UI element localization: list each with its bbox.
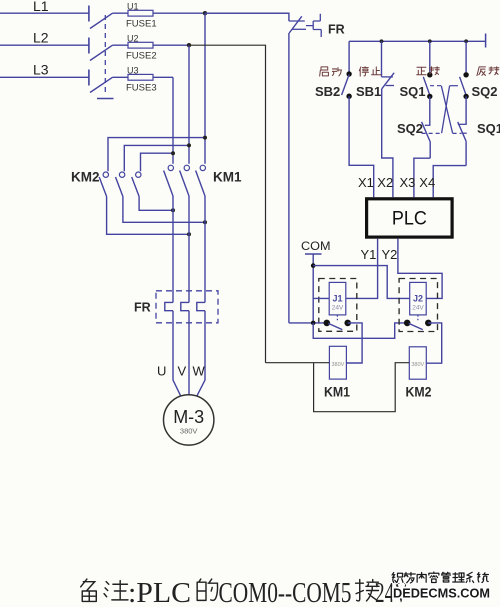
heater element 1 <box>165 302 173 310</box>
control bus <box>349 34 486 48</box>
wire phase A drop (from L1) <box>204 13 206 164</box>
fuse U1 <box>126 2 157 30</box>
terminal COM <box>301 239 331 323</box>
label KM2 coil <box>406 384 432 400</box>
svg-text:U: U <box>157 364 166 379</box>
svg-text:Y2: Y2 <box>382 247 398 262</box>
label Y2 <box>382 247 398 262</box>
wire SQ column4 to X4 <box>433 166 466 198</box>
limit switch SQ2 NC (forward column) <box>422 122 431 158</box>
svg-text:X2: X2 <box>377 175 393 190</box>
svg-text:L1: L1 <box>33 0 49 14</box>
label SQ2 <box>472 84 498 99</box>
svg-text:380V: 380V <box>411 362 424 368</box>
label SB1 <box>356 84 381 99</box>
node L1 junction dot <box>203 11 207 15</box>
contactor KM2 main contact 2 <box>116 172 125 197</box>
svg-text:DEDECMS.COM: DEDECMS.COM <box>393 587 490 601</box>
contactor KM1 main contact 3 <box>196 165 206 196</box>
label 反转 <box>477 67 499 76</box>
svg-text:X1: X1 <box>358 175 374 190</box>
contactor KM2 main contact 3 <box>132 172 141 197</box>
node bus dot SQ1 <box>428 39 432 43</box>
limit switch SQ1 NC (reverse column) <box>458 122 467 166</box>
svg-text:X3: X3 <box>400 175 416 190</box>
PLC box U1 <box>367 199 453 237</box>
svg-text:24V: 24V <box>412 305 424 312</box>
svg-text:24V: 24V <box>332 305 344 312</box>
motor M-3 circle <box>164 395 214 445</box>
limit switch SQ1 forward NO <box>423 41 432 125</box>
wire L1 to fuse <box>113 12 289 14</box>
svg-text:SB1: SB1 <box>356 84 381 99</box>
svg-text:PLC: PLC <box>392 208 427 230</box>
wire black bus to KM1 coil left <box>266 362 330 364</box>
svg-text:KM1: KM1 <box>324 384 350 400</box>
relay J2 dashed box <box>399 279 437 332</box>
contactor KM2 main contact 1 <box>99 172 108 197</box>
svg-text:L2: L2 <box>33 30 49 46</box>
svg-text:FUSE3: FUSE3 <box>126 83 157 94</box>
label 启动 <box>320 67 342 76</box>
svg-text:J1: J1 <box>332 294 342 304</box>
svg-text:KM2: KM2 <box>406 384 432 400</box>
contactor coil KM1 <box>329 346 346 379</box>
wire J1 coil left <box>313 297 329 299</box>
switch QS pole 3 <box>89 70 113 93</box>
wire L3 incoming <box>0 76 89 78</box>
svg-text:M-3: M-3 <box>173 407 204 427</box>
label X3 <box>400 175 416 190</box>
fuse U2 <box>126 34 157 62</box>
wire SB1 to X2 <box>382 89 393 198</box>
node L3 label <box>33 62 49 78</box>
label V <box>178 364 187 379</box>
relay J1 dashed box <box>319 279 357 332</box>
heater element 2 <box>181 302 189 310</box>
wire jumper phaseA to KM2 c1 top <box>108 136 207 172</box>
label U <box>157 364 166 379</box>
svg-text:V: V <box>178 364 187 379</box>
node bus dot SQ2 <box>464 39 468 43</box>
label SB2 <box>315 84 340 99</box>
node L1 label <box>33 0 49 14</box>
svg-text:KM1: KM1 <box>213 170 242 185</box>
label SQ1 <box>400 84 426 99</box>
svg-text:U2: U2 <box>127 34 139 44</box>
svg-text:FR: FR <box>134 301 151 315</box>
svg-text:U1: U1 <box>127 2 139 12</box>
svg-text:SQ2: SQ2 <box>397 121 423 136</box>
svg-text:SQ2: SQ2 <box>472 84 498 99</box>
label KM1 coil <box>324 384 350 400</box>
wire black bottom U to KM2 coil left <box>314 363 410 412</box>
wire KM2 c1 bottom to phaseB <box>107 197 191 237</box>
label SQ2 lower <box>397 121 423 136</box>
wire L3 to fuse <box>113 76 174 78</box>
contactor KM1 main contact 1 <box>164 165 174 196</box>
svg-text:U3: U3 <box>127 66 139 76</box>
wire J1 rail to J2 rail <box>313 323 407 338</box>
label X1 <box>358 175 374 190</box>
wire Y2 to J2 coil <box>398 239 442 299</box>
wire heater to motor W <box>197 311 205 397</box>
wire SQ column3 to X3 <box>414 158 430 197</box>
svg-text:COM: COM <box>301 239 331 253</box>
relay J1 contact <box>289 315 351 329</box>
svg-text:Y1: Y1 <box>361 247 377 262</box>
wire heater to motor U <box>173 311 181 397</box>
svg-text:380V: 380V <box>331 362 344 368</box>
label Y1 <box>361 247 377 262</box>
svg-text:X4: X4 <box>419 175 435 190</box>
switch QS pole 1 <box>89 6 113 29</box>
note text 备注:PLC的COM0--COM5接24V <box>81 577 408 607</box>
label X2 <box>377 175 393 190</box>
contactor coil KM2 <box>409 347 426 379</box>
watermark line 1 织梦内容管理系统 <box>392 572 488 583</box>
wire J2 contact to KM2 coil <box>426 323 441 363</box>
svg-text:COM0--COM5: COM0--COM5 <box>219 577 352 607</box>
wire SB2 to X1 <box>349 96 374 197</box>
label KM2 contacts <box>71 170 100 185</box>
wire jumper phaseC to KM2 c3 top <box>141 151 176 171</box>
label KM1 contacts <box>213 170 242 185</box>
wire L1 incoming <box>0 12 89 14</box>
svg-text:J2: J2 <box>413 294 423 304</box>
svg-text:W: W <box>193 364 206 379</box>
thermal relay FR contact (top right) <box>205 13 321 37</box>
node bus dot SB1 <box>380 39 384 43</box>
svg-text:FUSE1: FUSE1 <box>126 19 157 30</box>
wire phase A to heater <box>204 196 206 302</box>
wire heater to motor V <box>188 311 190 395</box>
wire L2 to fuse <box>113 44 190 46</box>
wire FR drop to relay rail <box>288 33 290 323</box>
node L2 junction dot <box>187 43 191 47</box>
switch QS pole 2 <box>89 38 113 61</box>
node L2 label <box>33 30 49 46</box>
wire L2 incoming <box>0 44 89 46</box>
label SQ1 lower <box>477 121 500 136</box>
wire L2 control feed (black) <box>189 45 266 363</box>
wire jumper phaseB to KM2 c2 top <box>124 143 191 171</box>
thermal overload FR dashed box <box>156 291 218 323</box>
wire Y1 to J1 coil <box>346 239 378 299</box>
relay J1 coil <box>329 282 346 315</box>
switch QS linkage <box>97 15 114 99</box>
wire KM2 c3 bottom to phaseC <box>139 197 175 213</box>
wire J1 contact to KM1 coil <box>346 323 362 363</box>
pushbutton SB1 stop NC <box>382 41 395 89</box>
contactor KM1 main contact 2 <box>180 165 190 196</box>
label W <box>193 364 206 379</box>
svg-text:SB2: SB2 <box>315 84 340 99</box>
relay J2 contact <box>404 315 432 329</box>
wire COM rail to J2 coil <box>313 266 410 299</box>
svg-text:L3: L3 <box>33 62 49 78</box>
pushbutton SB2 start NO <box>342 41 352 99</box>
svg-text:380V: 380V <box>180 427 198 436</box>
wire phase C drop (from L3) <box>172 77 174 164</box>
label 停止 <box>359 67 381 76</box>
wire phase B drop (from L2) <box>188 45 190 164</box>
watermark line 2 DEDECMS.COM <box>393 587 490 601</box>
relay J2 coil <box>410 282 427 315</box>
label X4 <box>419 175 435 190</box>
wire phase B to heater <box>188 196 190 302</box>
fuse U3 <box>126 66 157 94</box>
limit switch SQ2 reverse NO <box>460 41 469 124</box>
wire KM2 c2 bottom to phaseA <box>123 197 207 225</box>
svg-text:FUSE2: FUSE2 <box>126 51 157 62</box>
label 正转 <box>417 67 440 75</box>
label FR heater <box>134 301 151 315</box>
heater element 3 <box>197 302 205 310</box>
svg-text:KM2: KM2 <box>71 170 100 185</box>
label FR contact <box>328 23 345 37</box>
svg-text:SQ1: SQ1 <box>400 84 426 99</box>
svg-text:FR: FR <box>328 23 345 37</box>
wire cross link diagonals <box>422 86 462 134</box>
svg-text:SQ1: SQ1 <box>477 121 500 136</box>
wire phase C to heater <box>172 196 174 302</box>
svg-text::PLC: :PLC <box>128 577 191 607</box>
